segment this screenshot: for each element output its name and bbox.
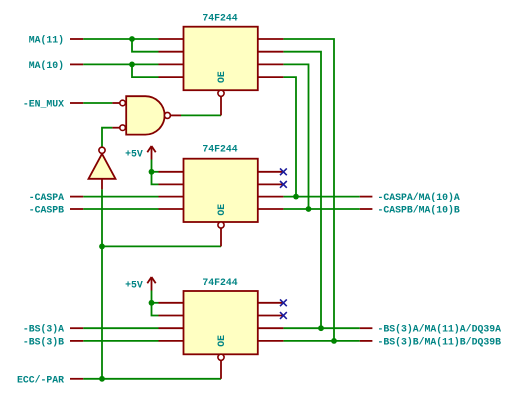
svg-text:ECC/-PAR: ECC/-PAR [17,374,64,385]
svg-text:OE: OE [216,204,227,216]
svg-text:-EN_MUX: -EN_MUX [23,99,64,110]
svg-text:-CASPA: -CASPA [29,192,64,203]
svg-text:-CASPB/MA(10)B: -CASPB/MA(10)B [378,205,460,216]
svg-text:MA(11): MA(11) [29,35,64,46]
svg-text:-BS(3)B/MA(11)B/DQ39B: -BS(3)B/MA(11)B/DQ39B [378,336,502,347]
svg-text:74F244: 74F244 [202,277,237,288]
svg-text:MA(10): MA(10) [29,60,64,71]
svg-text:OE: OE [216,335,227,347]
svg-text:+5V: +5V [125,279,143,290]
svg-text:-BS(3)A: -BS(3)A [23,324,64,335]
svg-text:74F244: 74F244 [202,144,237,155]
svg-text:+5V: +5V [125,148,143,159]
svg-text:-CASPA/MA(10)A: -CASPA/MA(10)A [378,192,460,203]
svg-text:-BS(3)B: -BS(3)B [23,336,64,347]
svg-text:OE: OE [216,71,227,83]
svg-text:-CASPB: -CASPB [29,205,64,216]
svg-text:74F244: 74F244 [202,13,237,24]
svg-text:-BS(3)A/MA(11)A/DQ39A: -BS(3)A/MA(11)A/DQ39A [378,324,502,335]
